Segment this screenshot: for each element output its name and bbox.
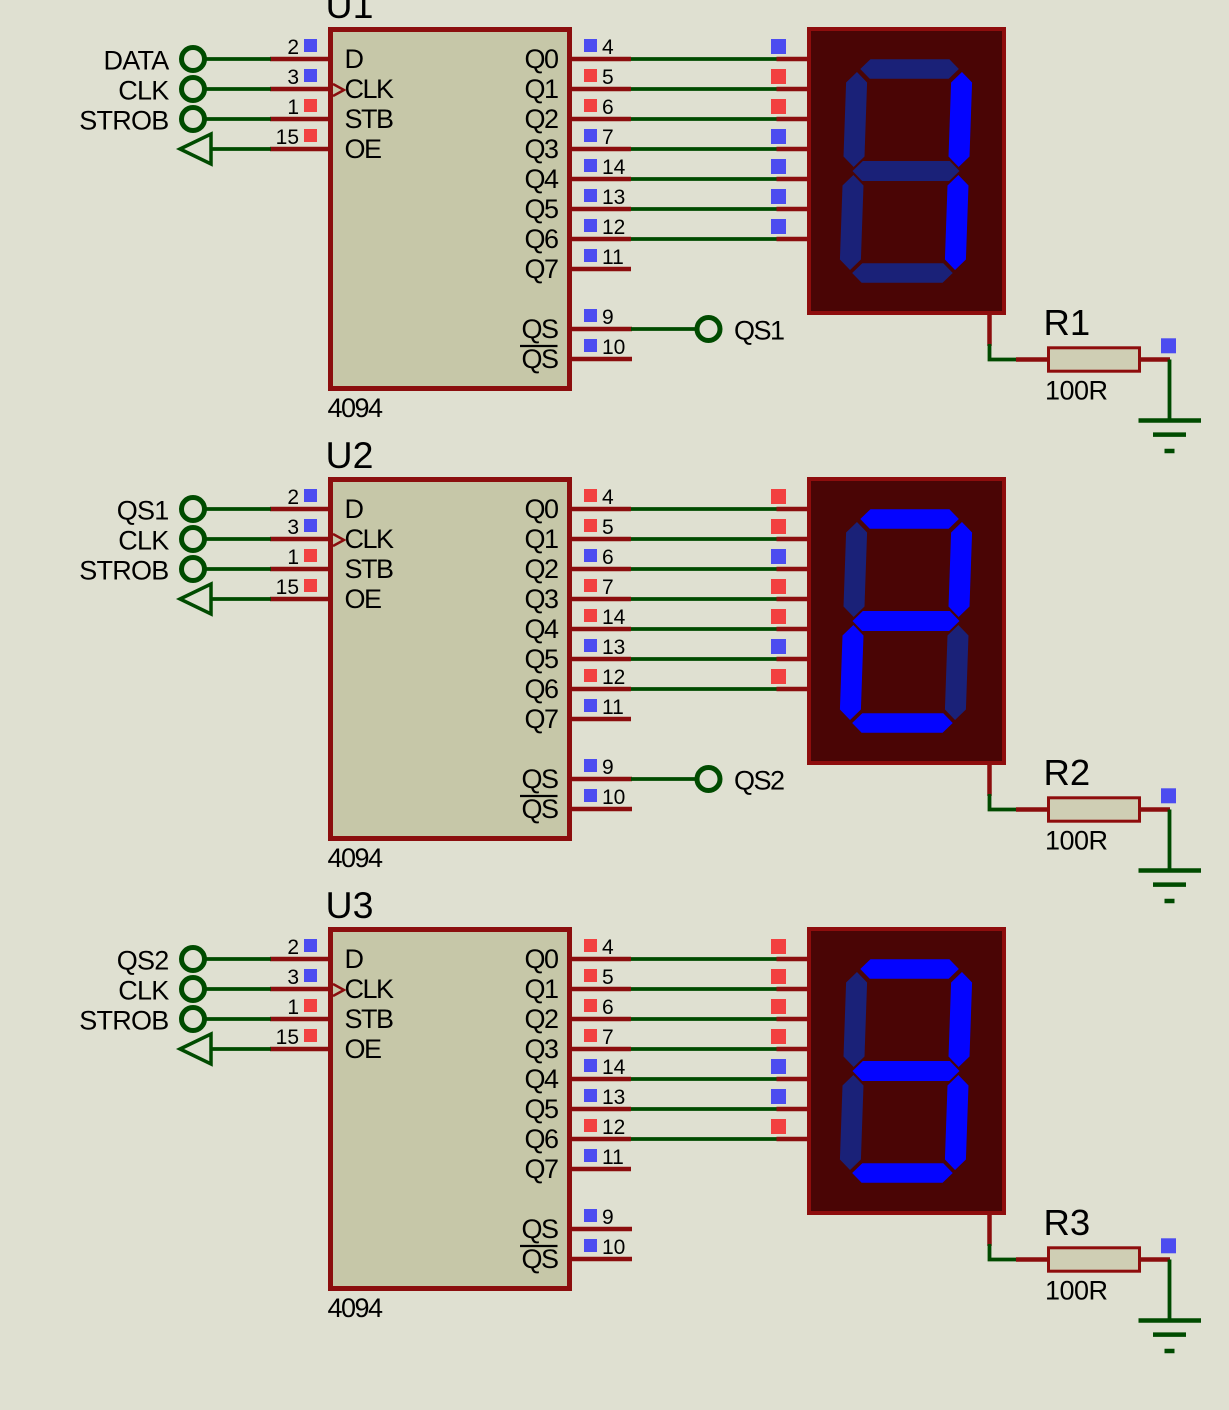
svg-text:14: 14 [602,156,626,179]
wire CLK to U3 [205,987,272,991]
net state square (U2 pin 14 wire) [771,609,786,624]
DISP1 segment B (lit) [948,72,972,167]
svg-text:Q1: Q1 [524,524,558,554]
svg-text:QS: QS [521,794,558,824]
svg-text:15: 15 [276,1026,299,1049]
U3 pin 14 state square [584,1059,597,1072]
U3 pin 12 stub [570,1137,631,1142]
net state square (U2 pin 7 wire) [771,579,786,594]
svg-text:3: 3 [287,966,299,989]
wire OE terminal to U3 pin 15 [211,1047,271,1051]
svg-text:Q6: Q6 [524,674,558,704]
DISP1 segment A (off) [860,59,959,79]
U2 pin 10 stub [570,807,632,812]
net state square (U3 pin 6 wire) [771,999,786,1014]
svg-text:4094: 4094 [328,843,384,873]
net state square (U2 pin 4 wire) [771,489,786,504]
DISP1 pin stub row 5 [777,177,810,182]
wire R2 to ground [1168,810,1172,870]
DISP2 pin stub row 5 [777,627,810,632]
7-segment display DISP1 body [809,29,1004,313]
wire QS2 to U3 [205,957,272,961]
svg-text:STB: STB [345,554,394,584]
net state square (U2 pin 5 wire) [771,519,786,534]
U2 pin 9 stub [570,777,632,782]
input terminal CLK (stage 2) [118,526,204,556]
svg-text:Q3: Q3 [524,1034,558,1064]
U3 pin 15 state square [304,1029,317,1042]
R3 left lead [1016,1257,1050,1262]
U1 pin name QS-bar (with overline) [520,344,558,374]
U1 pin 7 state square [584,129,597,142]
U2 pin 15 stub [270,597,330,602]
output terminal QS1 [697,316,784,346]
svg-text:OE: OE [345,134,382,164]
7-segment display DISP2 body [809,479,1004,763]
DISP2 pin stub row 3 [777,567,810,572]
DISP2 segment C (off) [945,625,969,720]
net state square (U2 pin 12 wire) [771,669,786,684]
U2 pin 4 state square [584,489,597,502]
DISP1 pin stub row 7 [777,237,810,242]
svg-text:Q2: Q2 [524,1004,558,1034]
wire U3 pin 12 to display DISP3 [631,1137,779,1141]
U3 pin 3 state square [304,969,317,982]
U3 pin 3 stub [270,987,330,992]
svg-text:Q3: Q3 [524,584,558,614]
U3 pin 11 stub [570,1167,631,1172]
U1 pin 6 stub [570,117,631,122]
svg-text:Q4: Q4 [524,614,559,644]
U2 pin 2 state square [304,489,317,502]
svg-text:D: D [345,494,364,524]
DISP3 pin stub row 3 [777,1017,810,1022]
input terminal QS1 (stage 2) [117,496,205,526]
svg-text:Q4: Q4 [524,1064,559,1094]
wire U2 pin 12 to display DISP2 [631,687,779,691]
node state square at R2/ground [1161,788,1176,803]
U3 pin 15 stub [270,1047,330,1052]
resistor R1 body [1049,348,1140,371]
DISP2 segment A (lit) [860,509,959,529]
input terminal CLK (stage 3) [118,976,204,1006]
U2 pin 10 state square [584,789,597,802]
svg-text:100R: 100R [1045,826,1108,856]
U2 pin 14 stub [570,627,631,632]
DISP2 pin stub row 6 [777,657,810,662]
input arrow terminal on OE (stage 3) [180,1034,211,1064]
output terminal QS2 [697,766,784,796]
wire STROB to U1 [205,117,272,121]
net state square (U1 pin 5 wire) [771,69,786,84]
U1 pin 12 stub [570,237,631,242]
U2 pin 7 stub [570,597,631,602]
svg-text:Q7: Q7 [524,704,558,734]
svg-text:1: 1 [287,546,299,569]
IC U1 body (4094 shift register) [331,30,570,389]
net state square (U1 pin 14 wire) [771,159,786,174]
svg-text:13: 13 [602,636,625,659]
wire DATA to U1 [205,57,272,61]
wire CLK to U2 [205,537,272,541]
DISP2 segment E (lit) [840,625,864,720]
U1 pin 14 state square [584,159,597,172]
svg-text:QS: QS [521,344,558,374]
svg-text:D: D [345,44,364,74]
svg-text:6: 6 [602,996,614,1019]
U1 pin 11 stub [570,267,631,272]
DISP2 segment G (lit) [852,611,960,631]
R1 left lead [1016,357,1050,362]
svg-text:3: 3 [287,66,299,89]
svg-text:Q2: Q2 [524,554,558,584]
DISP3 segment C (lit) [945,1075,969,1170]
svg-text:Q5: Q5 [524,194,558,224]
DISP3 segment E (off) [840,1075,864,1170]
net state square (U2 pin 13 wire) [771,639,786,654]
svg-text:QS: QS [521,314,558,344]
U3 pin 12 state square [584,1119,597,1132]
input terminal STROB (stage 1) [79,106,204,136]
DISP1 segment G (off) [852,161,960,181]
wire U3 pin 14 to display DISP3 [631,1077,779,1081]
U3 pin 14 stub [570,1077,631,1082]
DISP3 segment A (lit) [860,959,959,979]
U2 pin 5 stub [570,537,631,542]
U2 pin 1 state square [304,549,317,562]
svg-text:11: 11 [602,696,624,719]
U2 pin 6 state square [584,549,597,562]
U2 pin 9 state square [584,759,597,772]
U1 pin 7 stub [570,147,631,152]
svg-text:CLK: CLK [345,74,395,104]
svg-text:Q3: Q3 [524,134,558,164]
U3 pin 6 state square [584,999,597,1012]
svg-text:Q2: Q2 [524,104,558,134]
net state square (U1 pin 12 wire) [771,219,786,234]
wire R3 to ground [1168,1260,1172,1320]
svg-text:4094: 4094 [328,1293,384,1323]
net state square (U3 pin 5 wire) [771,969,786,984]
U1 pin 1 stub [270,117,330,122]
svg-text:QS: QS [521,1214,558,1244]
svg-text:2: 2 [287,36,299,59]
input terminal CLK (stage 1) [118,76,204,106]
DISP3 segment B (lit) [948,972,972,1067]
U2 pin 11 state square [584,699,597,712]
wire CLK to U1 [205,87,272,91]
net state square (U1 pin 4 wire) [771,39,786,54]
svg-text:Q4: Q4 [524,164,559,194]
7-segment display DISP3 body [809,929,1004,1213]
DISP3 pin stub row 1 [777,957,810,962]
input arrow terminal on OE (stage 2) [180,584,211,614]
DISP2 segment F (off) [843,522,867,617]
DISP3 pin stub row 5 [777,1077,810,1082]
DISP1 segment D (off) [852,263,953,283]
wire STROB to U2 [205,567,272,571]
U2 pin 11 stub [570,717,631,722]
DISP1 pin stub row 6 [777,207,810,212]
wire OE terminal to U2 pin 15 [211,597,271,601]
svg-text:4: 4 [602,36,614,59]
U1 pin 2 state square [304,39,317,52]
svg-text:7: 7 [602,1026,614,1049]
U2 pin 3 stub [270,537,330,542]
U3 pin 7 stub [570,1047,631,1052]
svg-text:CLK: CLK [345,524,395,554]
DISP2 pin stub row 2 [777,537,810,542]
U1 pin 11 state square [584,249,597,262]
U2 pin 5 state square [584,519,597,532]
svg-text:5: 5 [602,966,614,989]
DISP1 segment C (lit) [945,175,969,270]
wire U3 pin 6 to display DISP3 [631,1017,779,1021]
svg-text:CLK: CLK [118,976,169,1006]
U1 pin 5 state square [584,69,597,82]
svg-text:Q7: Q7 [524,1154,558,1184]
U2 pin 3 state square [304,519,317,532]
wire U1 pin 4 to display DISP1 [631,57,779,61]
R3 right lead [1139,1257,1170,1262]
ground symbol (stage 1) [1139,421,1202,452]
svg-text:100R: 100R [1045,376,1108,406]
wire U3 pin 5 to display DISP3 [631,987,779,991]
svg-text:D: D [345,944,364,974]
svg-text:6: 6 [602,546,614,569]
U1 CLK clock-input wedge [333,84,344,96]
U3 pin 10 stub [570,1257,632,1262]
U2 pin 14 state square [584,609,597,622]
DISP3 pin stub row 7 [777,1137,810,1142]
svg-text:Q5: Q5 [524,644,558,674]
svg-text:4: 4 [602,936,614,959]
wire U2 pin 14 to display DISP2 [631,627,779,631]
U1 pin 10 stub [570,357,632,362]
net state square (U1 pin 7 wire) [771,129,786,144]
U2 pin 2 stub [270,507,330,512]
svg-text:R3: R3 [1044,1202,1091,1243]
U3 pin 1 stub [270,1017,330,1022]
wire DISP2 common to R2 [990,794,1019,810]
svg-text:QS1: QS1 [117,496,169,526]
DISP1 pin stub row 3 [777,117,810,122]
U3 pin name QS-bar (with overline) [520,1244,558,1274]
U3 pin 11 state square [584,1149,597,1162]
ground symbol (stage 2) [1139,871,1202,902]
wire DISP1 common to R1 [990,344,1019,360]
wire R1 to ground [1168,360,1172,420]
U2 pin 12 stub [570,687,631,692]
wire U3 pin 4 to display DISP3 [631,957,779,961]
wire U3 pin 13 to display DISP3 [631,1107,779,1111]
R2 right lead [1139,807,1170,812]
svg-text:Q7: Q7 [524,254,558,284]
U1 pin 13 state square [584,189,597,202]
wire U1 pin 6 to display DISP1 [631,117,779,121]
svg-text:CLK: CLK [118,76,169,106]
svg-text:5: 5 [602,516,614,539]
svg-text:12: 12 [602,666,625,689]
U1 pin 14 stub [570,177,631,182]
input terminal STROB (stage 3) [79,1006,204,1036]
svg-text:U2: U2 [326,434,374,476]
svg-text:7: 7 [602,576,614,599]
U3 pin 4 state square [584,939,597,952]
svg-text:STB: STB [345,1004,394,1034]
U1 pin 10 state square [584,339,597,352]
U1 pin 13 stub [570,207,631,212]
U1 pin 12 state square [584,219,597,232]
wire U2 QS to terminal QS2 [631,777,696,781]
svg-text:CLK: CLK [345,974,395,1004]
svg-text:10: 10 [602,336,625,359]
svg-text:R1: R1 [1044,302,1091,343]
svg-text:QS: QS [521,764,558,794]
wire OE terminal to U1 pin 15 [211,147,271,151]
R2 left lead [1016,807,1050,812]
DISP2 segment B (lit) [948,522,972,617]
U2 pin 13 state square [584,639,597,652]
svg-text:4094: 4094 [328,393,384,423]
net state square (U2 pin 6 wire) [771,549,786,564]
svg-text:10: 10 [602,786,625,809]
DISP1 pin stub row 1 [777,57,810,62]
svg-text:STROB: STROB [79,1006,168,1036]
U3 pin 10 state square [584,1239,597,1252]
svg-text:STROB: STROB [79,556,168,586]
svg-text:9: 9 [602,306,614,329]
node state square at R1/ground [1161,338,1176,353]
DISP2 common pin stub (bottom) [987,762,992,796]
svg-text:6: 6 [602,96,614,119]
wire U2 pin 7 to display DISP2 [631,597,779,601]
DISP2 pin stub row 1 [777,507,810,512]
svg-text:Q6: Q6 [524,224,558,254]
svg-text:1: 1 [287,96,299,119]
DISP3 segment D (lit) [852,1163,953,1183]
svg-text:12: 12 [602,1116,625,1139]
svg-text:10: 10 [602,1236,625,1259]
svg-text:U1: U1 [326,0,374,26]
U3 pin 6 stub [570,1017,631,1022]
U1 pin 3 state square [304,69,317,82]
U1 pin 4 state square [584,39,597,52]
svg-text:Q0: Q0 [524,494,558,524]
DISP2 pin stub row 4 [777,597,810,602]
svg-text:15: 15 [276,576,299,599]
wire STROB to U3 [205,1017,272,1021]
svg-text:100R: 100R [1045,1276,1108,1306]
input arrow terminal on OE (stage 1) [180,134,211,164]
wire U1 pin 14 to display DISP1 [631,177,779,181]
U1 pin 15 state square [304,129,317,142]
DISP2 segment D (lit) [852,713,953,733]
svg-text:Q5: Q5 [524,1094,558,1124]
wire U1 pin 12 to display DISP1 [631,237,779,241]
svg-text:QS: QS [521,1244,558,1274]
net state square (U3 pin 7 wire) [771,1029,786,1044]
svg-text:U3: U3 [326,884,374,926]
svg-text:13: 13 [602,186,625,209]
svg-text:13: 13 [602,1086,625,1109]
wire U2 pin 5 to display DISP2 [631,537,779,541]
svg-text:2: 2 [287,936,299,959]
U2 CLK clock-input wedge [333,534,344,546]
DISP1 pin stub row 4 [777,147,810,152]
svg-text:DATA: DATA [103,46,169,76]
U3 pin 1 state square [304,999,317,1012]
net state square (U1 pin 6 wire) [771,99,786,114]
svg-text:Q1: Q1 [524,974,558,1004]
net state square (U3 pin 4 wire) [771,939,786,954]
U1 pin 9 stub [570,327,632,332]
svg-text:STB: STB [345,104,394,134]
svg-text:Q0: Q0 [524,44,558,74]
U3 pin 5 stub [570,987,631,992]
net state square (U3 pin 14 wire) [771,1059,786,1074]
U3 pin 9 stub [570,1227,632,1232]
net state square (U3 pin 12 wire) [771,1119,786,1134]
U2 pin 13 stub [570,657,631,662]
svg-text:9: 9 [602,756,614,779]
svg-text:OE: OE [345,584,382,614]
U2 pin 4 stub [570,507,631,512]
svg-text:Q6: Q6 [524,1124,558,1154]
U1 pin 1 state square [304,99,317,112]
net state square (U3 pin 13 wire) [771,1089,786,1104]
svg-text:2: 2 [287,486,299,509]
net state square (U1 pin 13 wire) [771,189,786,204]
U3 pin 4 stub [570,957,631,962]
svg-text:4: 4 [602,486,614,509]
wire U1 QS to terminal QS1 [631,327,696,331]
wire U1 pin 5 to display DISP1 [631,87,779,91]
wire U2 pin 13 to display DISP2 [631,657,779,661]
resistor R2 body [1049,798,1140,821]
U2 pin 6 stub [570,567,631,572]
resistor R3 body [1049,1248,1140,1271]
U3 pin 7 state square [584,1029,597,1042]
IC U3 body (4094 shift register) [331,930,570,1289]
svg-text:STROB: STROB [79,106,168,136]
svg-text:QS2: QS2 [117,946,169,976]
U2 pin name QS-bar (with overline) [520,794,558,824]
U2 pin 15 state square [304,579,317,592]
wire U1 pin 7 to display DISP1 [631,147,779,151]
DISP3 pin stub row 2 [777,987,810,992]
wire U2 pin 4 to display DISP2 [631,507,779,511]
U1 pin 3 stub [270,87,330,92]
DISP3 pin stub row 6 [777,1107,810,1112]
DISP2 pin stub row 7 [777,687,810,692]
wire U2 pin 6 to display DISP2 [631,567,779,571]
R1 right lead [1139,357,1170,362]
U3 pin 2 stub [270,957,330,962]
svg-text:QS1: QS1 [734,316,784,346]
U2 pin 7 state square [584,579,597,592]
svg-text:1: 1 [287,996,299,1019]
DISP3 segment F (off) [843,972,867,1067]
U1 pin 2 stub [270,57,330,62]
DISP3 common pin stub (bottom) [987,1212,992,1246]
svg-text:R2: R2 [1044,752,1091,793]
U3 pin 13 stub [570,1107,631,1112]
svg-text:9: 9 [602,1206,614,1229]
svg-text:14: 14 [602,1056,626,1079]
svg-text:3: 3 [287,516,299,539]
svg-text:Q1: Q1 [524,74,558,104]
